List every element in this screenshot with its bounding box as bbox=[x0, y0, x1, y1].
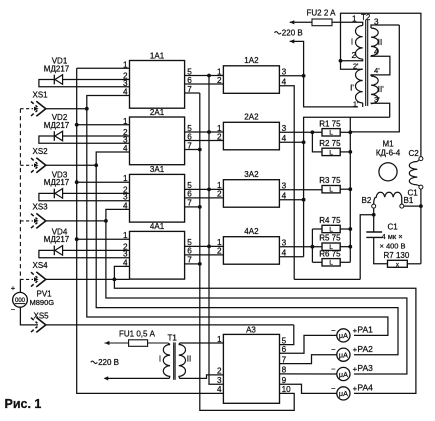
T1 winding II bbox=[179, 345, 186, 377]
wire XS4-row to PV1 plus bbox=[19, 279, 21, 292]
3A1 pin2 wire (diode VD3 line) bbox=[62, 192, 129, 194]
terminal B1 bbox=[400, 204, 404, 208]
T2 winding I' bottom lead bbox=[362, 103, 364, 107]
2A1 pin5 wire bbox=[185, 131, 224, 133]
terminal C2 bbox=[419, 157, 423, 161]
junction R4/R5/R6 node bbox=[311, 245, 315, 249]
svg-text:I: I bbox=[159, 355, 161, 364]
svg-text:3: 3 bbox=[217, 376, 222, 385]
T2 winding II bbox=[371, 28, 378, 56]
svg-text:РА2: РА2 bbox=[357, 344, 373, 354]
svg-text:6: 6 bbox=[187, 76, 192, 85]
arrow mains T1 upper bbox=[105, 341, 110, 345]
3A1 pin5 wire bbox=[185, 188, 224, 190]
2A1 pin6 wire bbox=[185, 140, 224, 142]
resistor R7 bbox=[388, 260, 408, 267]
wire XS3 to node bbox=[46, 220, 106, 222]
svg-text:С2: С2 bbox=[409, 149, 420, 158]
wire R4R5R6 link vertical bbox=[311, 229, 313, 262]
junction pin5 bus ch3 bbox=[207, 188, 211, 192]
wire pin4 bus bbox=[304, 117, 390, 256]
svg-text:L: L bbox=[329, 226, 333, 233]
svg-text:4: 4 bbox=[217, 385, 222, 394]
IC block A3 bbox=[223, 334, 279, 403]
svg-text:R4 75: R4 75 bbox=[319, 216, 341, 225]
4A1 pin4 wire to XS4 bbox=[114, 266, 129, 279]
junction pin5 bus ch2 bbox=[207, 130, 211, 134]
wire 1A2 riser corner to B2 riser bbox=[294, 278, 360, 280]
svg-text:R2 75: R2 75 bbox=[319, 139, 341, 148]
wire R4 to bus bbox=[340, 228, 350, 230]
4A1 pin6 wire bbox=[185, 254, 224, 256]
connector XS4 dashed arrow bbox=[20, 278, 33, 280]
svg-text:L: L bbox=[329, 187, 333, 194]
wire T2 pin3 bus down bbox=[350, 25, 399, 132]
svg-text:РА1: РА1 bbox=[357, 325, 373, 335]
wire PA1 minus to A3 pin6 bbox=[280, 335, 337, 353]
resistor R2 bbox=[322, 148, 340, 155]
wire pin1 bus bbox=[76, 68, 78, 325]
label ~220V top bbox=[275, 32, 282, 34]
3A2 pin4 wire bbox=[279, 199, 303, 201]
connector XS3 dashed arrow bbox=[20, 220, 33, 222]
connector XS2 dashed mating plug bbox=[31, 158, 37, 164]
svg-text:МД217: МД217 bbox=[44, 64, 70, 73]
junction B2 node bbox=[372, 213, 376, 217]
connector XS3 socket bbox=[36, 213, 46, 228]
wire R1 to bus bbox=[340, 131, 350, 133]
svg-text:7: 7 bbox=[187, 141, 192, 150]
junction pin7 bus ch3 bbox=[198, 205, 202, 209]
resistor R5 bbox=[322, 243, 340, 250]
svg-text:С1: С1 bbox=[388, 223, 399, 232]
1A1 pin1 wire bbox=[77, 67, 130, 69]
wire R bus bbox=[349, 132, 351, 262]
wire XS2 to node bbox=[46, 164, 96, 166]
1A2 pin3 wire to mains bus bbox=[279, 75, 303, 77]
svg-text:XS1: XS1 bbox=[33, 91, 49, 100]
svg-text:4': 4' bbox=[374, 66, 380, 75]
connector XS1 socket bbox=[36, 101, 46, 116]
wire 3' drop to R bus bbox=[349, 117, 351, 132]
junction mains / 1A2 pin3 bbox=[302, 74, 306, 78]
wire PA4 minus to A3 pin9 bbox=[280, 384, 337, 393]
resistor R1 bbox=[322, 129, 340, 136]
3A2 pin3 wire to R3 bbox=[279, 189, 322, 191]
wire R2 to bus bbox=[340, 151, 350, 153]
svg-text:1A1: 1A1 bbox=[150, 51, 165, 60]
connector XS1 dashed arrow bbox=[20, 108, 33, 110]
svg-text:Рис. 1: Рис. 1 bbox=[5, 397, 42, 411]
svg-text:XS2: XS2 bbox=[33, 147, 49, 156]
arrow mains T1 lower bbox=[104, 376, 109, 380]
wire R3 to bus bbox=[340, 188, 350, 190]
svg-text:4 мк ×: 4 мк × bbox=[382, 232, 403, 241]
svg-text:МД217: МД217 bbox=[44, 121, 70, 130]
resistor R4 bbox=[322, 225, 340, 232]
svg-text:220 В: 220 В bbox=[98, 358, 119, 367]
T2 winding II' bbox=[371, 76, 378, 104]
wire FU2 to T2 winding I bbox=[332, 22, 363, 25]
wire R4R5R6 parallel link bbox=[312, 228, 322, 230]
svg-text:XS3: XS3 bbox=[33, 203, 49, 212]
svg-text:4: 4 bbox=[123, 201, 128, 210]
diode VD3 bbox=[53, 189, 55, 199]
1A1 pin7 wire bbox=[185, 92, 200, 94]
resistor R3 bbox=[322, 186, 340, 193]
svg-text:T2: T2 bbox=[361, 13, 371, 22]
3A1 pin6 wire bbox=[185, 197, 224, 199]
wire XS5 row bbox=[46, 324, 294, 326]
wire mains bus from ~220V to T2 1' bbox=[290, 41, 358, 107]
1A1 pin5 wire bbox=[185, 75, 224, 77]
svg-text:М1: М1 bbox=[382, 140, 394, 149]
svg-text:2': 2' bbox=[353, 61, 359, 70]
T1 winding II top lead bbox=[179, 343, 224, 345]
T2 winding II bottom lead bbox=[371, 56, 390, 76]
svg-text:−: − bbox=[331, 326, 336, 335]
IC block 4A2 bbox=[223, 237, 279, 265]
svg-text:1': 1' bbox=[353, 99, 359, 108]
svg-text:А3: А3 bbox=[246, 325, 256, 334]
svg-text:II: II bbox=[378, 38, 382, 47]
svg-text:XS5: XS5 bbox=[34, 311, 50, 320]
svg-text:μА: μА bbox=[339, 351, 348, 360]
microammeter PA2 bbox=[337, 348, 350, 361]
svg-text:−: − bbox=[11, 305, 16, 314]
terminal B2 bbox=[372, 204, 376, 208]
wire B2 riser bbox=[360, 215, 374, 280]
svg-text:7: 7 bbox=[187, 85, 192, 94]
svg-text:3A2: 3A2 bbox=[244, 170, 259, 179]
4A1 pin7 wire bbox=[185, 263, 200, 265]
IC block 1A2 bbox=[223, 66, 279, 94]
motor main winding C2-C1 bbox=[417, 160, 419, 162]
svg-text:3: 3 bbox=[123, 135, 128, 144]
svg-text:I: I bbox=[351, 38, 353, 47]
svg-text:μА: μА bbox=[339, 370, 348, 379]
T1 winding I bbox=[163, 345, 170, 377]
svg-text:3': 3' bbox=[374, 95, 380, 104]
connector XS5 socket bbox=[36, 317, 46, 332]
arrow mains lower-left bbox=[290, 39, 295, 43]
svg-text:XS4: XS4 bbox=[33, 261, 49, 270]
wire channel 4 bus wrap bbox=[114, 279, 416, 393]
svg-text:1: 1 bbox=[123, 60, 128, 69]
4A2 pin4 wire (bus end) bbox=[279, 256, 303, 258]
svg-text:2A2: 2A2 bbox=[244, 113, 259, 122]
T2 winding I' bbox=[356, 69, 363, 103]
3A1 pin4 wire to XS3 bbox=[106, 209, 130, 221]
arrow mains top-left bbox=[290, 20, 295, 24]
junction T2 center tap bbox=[339, 59, 343, 63]
IC block 1A1 bbox=[130, 61, 185, 109]
wire pin7 bus bbox=[200, 93, 294, 410]
svg-text:× 400 В: × 400 В bbox=[380, 241, 406, 250]
diode VD4 bbox=[53, 246, 55, 256]
svg-text:2A1: 2A1 bbox=[150, 108, 165, 117]
1A1 pin4 wire to XS1 bbox=[87, 96, 130, 109]
svg-text:7: 7 bbox=[187, 256, 192, 265]
wire pin5 bus bbox=[209, 76, 223, 385]
2A2 pin4 wire bbox=[279, 141, 303, 143]
wire XS5 to A3 pin5 bbox=[280, 325, 294, 345]
terminal C1 bbox=[419, 185, 423, 189]
svg-text:I': I' bbox=[350, 84, 354, 93]
microammeter PA1 bbox=[337, 329, 350, 342]
3A1 pin1 wire bbox=[77, 181, 130, 183]
svg-text:4A1: 4A1 bbox=[150, 222, 165, 231]
svg-text:L: L bbox=[329, 260, 333, 267]
IC block 3A1 bbox=[130, 174, 185, 222]
svg-text:10: 10 bbox=[282, 385, 292, 394]
junction pin1 bus ch3 bbox=[75, 180, 79, 184]
connector XS1 dashed mating plug bbox=[31, 102, 37, 108]
2A1 pin4 wire to XS2 bbox=[96, 152, 129, 165]
wire XS4 row bbox=[46, 278, 130, 280]
label ~220V bottom bbox=[91, 361, 98, 363]
motor M1 circle bbox=[379, 163, 397, 181]
svg-text:КД-6-4: КД-6-4 bbox=[376, 148, 401, 157]
svg-text:В1: В1 bbox=[404, 196, 414, 205]
svg-text:3A1: 3A1 bbox=[150, 165, 165, 174]
connector XS4 socket bbox=[36, 272, 46, 287]
fuse FU2 bbox=[312, 21, 332, 23]
svg-text:+: + bbox=[11, 283, 16, 292]
svg-text:−: − bbox=[331, 364, 336, 373]
svg-text:3: 3 bbox=[123, 79, 128, 88]
wire mains top to FU2 bbox=[290, 21, 312, 23]
1A2 pin4 wire to riser bbox=[279, 86, 294, 280]
wire PA3 minus to A3 pin8 bbox=[280, 373, 337, 375]
svg-text:4A2: 4A2 bbox=[244, 227, 259, 236]
svg-text:1: 1 bbox=[352, 14, 357, 23]
svg-text:1A2: 1A2 bbox=[244, 56, 259, 65]
wire R6 to bus bbox=[340, 261, 350, 263]
svg-text:2: 2 bbox=[217, 132, 222, 141]
T2 winding I bottom lead bbox=[341, 59, 363, 61]
svg-text:II': II' bbox=[378, 85, 384, 94]
IC block 2A1 bbox=[130, 117, 185, 165]
svg-text:220 В: 220 В bbox=[282, 28, 303, 37]
junction R bus R5 bbox=[348, 245, 352, 249]
svg-text:4: 4 bbox=[123, 88, 128, 97]
connector XS4 dashed mating plug bbox=[31, 272, 37, 278]
T2 winding II' bottom lead bbox=[371, 103, 390, 117]
svg-text:R1 75: R1 75 bbox=[319, 119, 341, 128]
junction R bus R3 bbox=[348, 187, 352, 191]
T2 winding I' top lead bbox=[341, 61, 363, 70]
microammeter PA4 bbox=[337, 387, 350, 400]
svg-text:РА4: РА4 bbox=[357, 383, 373, 393]
1A1 pin6 wire bbox=[185, 83, 224, 85]
IC block 3A2 bbox=[223, 180, 279, 208]
svg-text:3: 3 bbox=[123, 250, 128, 259]
4A2 pin3 wire to R4R5R6 bbox=[279, 246, 322, 248]
svg-text:3: 3 bbox=[123, 193, 128, 202]
wire T2 center tap to right bus bbox=[341, 13, 421, 158]
svg-text:R5 75: R5 75 bbox=[319, 234, 341, 243]
connector XS2 dashed arrow bbox=[20, 164, 33, 166]
svg-text:R3 75: R3 75 bbox=[319, 176, 341, 185]
wire PV1 minus to XS5 bbox=[20, 307, 38, 325]
svg-text:FU1 0,5 А: FU1 0,5 А bbox=[119, 330, 156, 339]
svg-text:В2: В2 bbox=[362, 196, 372, 205]
T2 winding II top lead bbox=[371, 25, 399, 28]
diode VD2 bbox=[53, 131, 55, 141]
svg-text:2: 2 bbox=[217, 76, 222, 85]
4A1 pin5 wire bbox=[185, 245, 224, 247]
svg-text:Т1: Т1 bbox=[168, 333, 178, 342]
junction B1 node bbox=[419, 204, 423, 208]
junction pin5 bus ch4 bbox=[207, 245, 211, 249]
junction pin4 bus 2A2 bbox=[302, 140, 306, 144]
2A1 pin7 wire bbox=[185, 149, 200, 151]
2A2 pin3 wire to R1R2 bbox=[279, 131, 322, 133]
svg-text:М890G: М890G bbox=[30, 298, 55, 307]
wire channel 3 bus wrap bbox=[106, 221, 407, 374]
junction XS4 node bbox=[113, 278, 117, 282]
wire R1R2 parallel link bbox=[312, 132, 322, 152]
svg-text:−: − bbox=[331, 384, 336, 393]
T1 winding I bottom lead bbox=[105, 376, 170, 378]
3A1 pin7 wire bbox=[185, 206, 200, 208]
wire PA2 minus to A3 pin7 bbox=[280, 355, 337, 364]
connector XS5 dashed mating plug bbox=[31, 318, 37, 324]
svg-text:4: 4 bbox=[374, 48, 379, 57]
svg-text:4: 4 bbox=[123, 258, 128, 267]
2A1 pin1 wire bbox=[77, 124, 130, 126]
svg-text:РА3: РА3 bbox=[357, 363, 373, 373]
junction pin1 bus ch4 bbox=[75, 237, 79, 241]
wire channel 1 bus wrap bbox=[87, 109, 388, 336]
wire C1 to B1 node bbox=[420, 189, 422, 264]
junction R bus R4 bbox=[348, 227, 352, 231]
wire VD3 anode loop to pin3 bbox=[39, 193, 130, 200]
capacitor C1 bbox=[366, 231, 382, 233]
svg-text:L: L bbox=[329, 149, 333, 156]
svg-text:1: 1 bbox=[123, 174, 128, 183]
svg-text:3: 3 bbox=[374, 17, 379, 26]
T1 winding I top lead bbox=[168, 343, 170, 345]
wire channel 2 bus wrap bbox=[96, 165, 398, 354]
wire XS1 to node bbox=[46, 108, 87, 110]
transformer T1 core bbox=[173, 342, 175, 379]
voltmeter PV1 circle bbox=[13, 292, 28, 307]
wire VD4 anode loop to pin3 bbox=[39, 250, 130, 257]
T2 winding I bbox=[356, 26, 363, 60]
resistor R6 bbox=[322, 259, 340, 266]
wire C1 to R7 bbox=[374, 237, 388, 263]
fuse FU1 bbox=[105, 342, 169, 344]
svg-text:МД217: МД217 bbox=[44, 178, 70, 187]
svg-text:МД217: МД217 bbox=[44, 235, 70, 244]
junction pin7 bus ch2 bbox=[198, 148, 202, 152]
4A1 pin1 wire bbox=[77, 238, 130, 240]
junction pin1 bus ch2 bbox=[75, 123, 79, 127]
wire B1 to bus bbox=[404, 205, 421, 207]
svg-text:μА: μА bbox=[339, 331, 348, 340]
microammeter PA3 bbox=[337, 367, 350, 380]
diode VD1 bbox=[53, 75, 55, 85]
1A1 pin2 wire (diode VD1 line) bbox=[62, 79, 129, 81]
svg-text:6: 6 bbox=[187, 190, 192, 199]
junction R bus R1 bbox=[348, 130, 352, 134]
wire R5 to bus bbox=[340, 246, 350, 248]
svg-text:5: 5 bbox=[282, 336, 287, 345]
junction R1/R2 node bbox=[311, 130, 315, 134]
2A1 pin2 wire (diode VD2 line) bbox=[62, 135, 129, 137]
junction XS3 node bbox=[104, 219, 108, 223]
IC block 4A1 bbox=[130, 231, 185, 279]
svg-text:R6 75: R6 75 bbox=[319, 249, 341, 258]
junction XS1 node bbox=[85, 107, 89, 111]
wire XS5 drop to A3 pin4 bbox=[77, 325, 224, 394]
svg-text:1: 1 bbox=[123, 117, 128, 126]
junction pin7 bus ch4 bbox=[198, 262, 202, 266]
wire R6 link bbox=[312, 261, 322, 263]
svg-text:FU2 2 A: FU2 2 A bbox=[307, 8, 337, 17]
svg-text:2: 2 bbox=[217, 190, 222, 199]
4A1 pin2 wire (diode VD4 line) bbox=[62, 249, 129, 251]
svg-text:R7 130: R7 130 bbox=[384, 251, 410, 260]
svg-text:μА: μА bbox=[339, 389, 348, 398]
svg-text:7: 7 bbox=[187, 199, 192, 208]
wire dashed cable-link XS1-XS4 bbox=[19, 109, 21, 280]
junction pin5 bus ch1 bbox=[207, 74, 211, 78]
motor aux winding B2-B1 bbox=[374, 192, 402, 204]
connector XS3 dashed mating plug bbox=[31, 214, 37, 220]
svg-text:−: − bbox=[331, 345, 336, 354]
junction XS2 node bbox=[94, 163, 98, 167]
svg-text:4: 4 bbox=[123, 144, 128, 153]
svg-text:6: 6 bbox=[187, 132, 192, 141]
svg-text:II: II bbox=[187, 355, 191, 364]
svg-text:L: L bbox=[329, 130, 333, 137]
junction pin4 bus 3A2 bbox=[302, 198, 306, 202]
connector XS2 socket bbox=[36, 158, 46, 173]
svg-text:2: 2 bbox=[351, 51, 356, 60]
IC block 2A2 bbox=[223, 122, 279, 150]
wire B2 down to C1 node bbox=[373, 208, 375, 232]
wire VD1 anode loop to pin3 bbox=[39, 80, 130, 87]
svg-text:2: 2 bbox=[217, 247, 222, 256]
svg-text:1: 1 bbox=[123, 231, 128, 240]
svg-text:6: 6 bbox=[187, 247, 192, 256]
junction R bus R2 bbox=[348, 150, 352, 154]
transformer T2 core bbox=[365, 20, 367, 107]
wire VD2 anode loop to pin3 bbox=[39, 136, 130, 143]
wire R7 to B1 node bbox=[407, 263, 421, 265]
T1 winding II bottom lead bbox=[179, 375, 224, 379]
